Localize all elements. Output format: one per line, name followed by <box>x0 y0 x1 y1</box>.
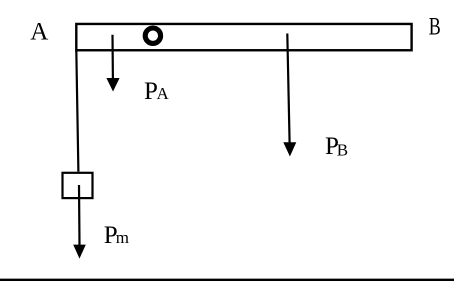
svg-text:B: B <box>337 140 348 159</box>
label P_m <box>104 222 129 249</box>
force arrow P_m <box>73 185 86 259</box>
beam AB <box>76 24 411 50</box>
mass block <box>63 173 93 198</box>
svg-text:A: A <box>157 84 170 103</box>
label P_B <box>325 133 348 160</box>
force arrow P_B <box>283 34 296 157</box>
force arrow P_A <box>106 35 119 92</box>
svg-text:A: A <box>30 19 48 46</box>
svg-text:B: B <box>429 13 441 40</box>
svg-text:m: m <box>116 228 129 247</box>
label P_A <box>144 78 170 105</box>
pivot circle <box>145 28 160 43</box>
ground line <box>0 279 454 281</box>
string wire <box>76 50 78 172</box>
